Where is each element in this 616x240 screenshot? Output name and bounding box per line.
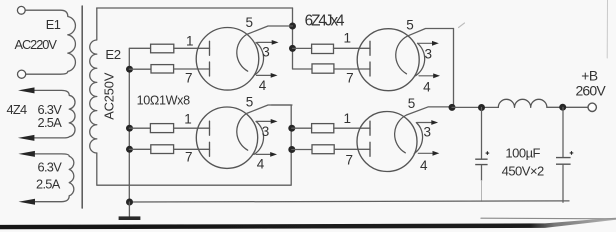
V2 pin3 lead — [257, 120, 274, 122]
terminal primary top — [17, 6, 25, 14]
svg-text:7: 7 — [346, 152, 354, 167]
svg-text:4: 4 — [423, 80, 431, 95]
node upper bus pin5 junction — [289, 23, 296, 30]
node rail junction C2 tap — [559, 104, 566, 111]
wire lower bus row2 stub — [292, 149, 312, 151]
svg-text:E2: E2 — [105, 47, 120, 62]
wire upper bus row1 stub — [293, 47, 312, 49]
V2 cathode — [237, 114, 248, 151]
resistor R5 — [312, 44, 334, 53]
wire R7 to V4 pin1 — [334, 127, 370, 129]
wire left row2 stub — [129, 68, 151, 70]
V2 plate pin7 — [209, 142, 211, 156]
transformer secondary winding E2 (AC250V) — [90, 8, 97, 153]
capacitor C1 plates — [475, 159, 487, 164]
V3 pin3 lead — [418, 42, 435, 44]
wire ground rail — [130, 201, 570, 202]
svg-text:5: 5 — [246, 95, 254, 110]
arrow terminal heater1 bottom — [18, 135, 35, 141]
svg-text:3: 3 — [262, 124, 270, 139]
node rail junction A — [449, 104, 456, 111]
svg-text:AC250V: AC250V — [101, 72, 116, 120]
scan bottom edge bar — [0, 218, 616, 230]
svg-text:6.3V: 6.3V — [38, 160, 63, 175]
arrow terminal heater1 top — [18, 87, 35, 93]
svg-text:260V: 260V — [575, 82, 606, 98]
wire R1 to V1 pin1 — [174, 47, 210, 49]
V1 plate pin7 — [209, 62, 211, 76]
capacitor C2 plates — [556, 158, 571, 165]
wire top rail (secondary top to bus) — [97, 7, 293, 9]
wire left row3 stub — [129, 127, 150, 129]
wire R6 to V3 pin7 — [334, 68, 370, 70]
V3 pin5 lead — [408, 29, 454, 36]
node left bus row3 junction — [126, 125, 133, 132]
tube V3 envelope — [357, 29, 419, 91]
wire output rail — [452, 106, 498, 108]
wire left bus (10ohm feed) — [129, 48, 150, 202]
capacitor C2 bottom lead — [562, 165, 564, 203]
tube V2 envelope — [196, 107, 257, 168]
scan right thin line — [481, 217, 616, 220]
V4 pin5 lead — [407, 107, 452, 115]
wire lower bus row1 stub — [292, 127, 312, 129]
V1 heater arc — [254, 42, 264, 75]
V4 pin4 lead — [418, 152, 435, 154]
V1 pin4 lead — [257, 74, 274, 76]
capacitor C1 top lead — [481, 108, 483, 159]
wire R2 to V1 pin7 — [174, 68, 210, 70]
svg-text:4: 4 — [257, 157, 265, 172]
svg-text:AC220V: AC220V — [15, 37, 58, 52]
node upper bus row1 junction — [289, 45, 296, 52]
svg-text:4Z4: 4Z4 — [7, 102, 28, 117]
svg-text:1: 1 — [344, 111, 352, 126]
V4 heater arc — [414, 123, 422, 154]
transformer heater winding 6.3V 2.5A (lower) — [35, 154, 74, 202]
resistor R4 — [151, 145, 174, 154]
terminal output +B — [588, 103, 596, 111]
V3 heater arc — [416, 43, 425, 76]
svg-text:7: 7 — [185, 150, 193, 165]
wire right bus (V3 pin5 down) — [453, 29, 455, 108]
resistor R8 — [312, 145, 334, 154]
scan faint smudge — [459, 23, 465, 28]
ground symbol — [128, 202, 130, 217]
arrow terminal heater2 top — [18, 151, 35, 157]
svg-text:5: 5 — [408, 96, 416, 111]
V4 plate pin1 — [369, 121, 371, 135]
resistor R7 — [312, 124, 334, 133]
V2 pin4 lead — [256, 153, 273, 155]
svg-text:3: 3 — [262, 45, 270, 60]
transformer T core — [81, 6, 83, 208]
resistor R2 — [151, 65, 174, 73]
scan faint right vertical — [606, 0, 608, 58]
svg-text:3: 3 — [424, 46, 432, 61]
svg-text:450V×2: 450V×2 — [502, 163, 544, 178]
svg-text:5: 5 — [406, 18, 414, 33]
node lower bus row2 junction — [288, 146, 295, 153]
tube V1 envelope — [196, 28, 259, 91]
capacitor C2 top lead — [562, 107, 564, 157]
svg-text:3: 3 — [424, 125, 432, 140]
V3 pin4 lead — [419, 75, 436, 77]
capacitor C1 bottom lead — [481, 165, 483, 180]
svg-text:2.5A: 2.5A — [38, 115, 63, 130]
svg-text:E1: E1 — [46, 17, 61, 32]
transformer heater winding 6.3V 2.5A (upper) — [35, 90, 76, 137]
V1 pin5 lead — [247, 26, 293, 35]
node left bus row2 junction — [126, 66, 133, 73]
V2 plate pin1 — [209, 121, 211, 135]
V3 plate pin7 — [369, 62, 371, 76]
V4 pin3 lead — [417, 122, 434, 124]
V1 cathode — [237, 35, 248, 72]
svg-text:1: 1 — [184, 112, 192, 127]
capacitor C2 plus — [570, 151, 574, 155]
svg-text:4: 4 — [259, 78, 267, 93]
V1 plate pin1 — [209, 41, 211, 55]
terminal primary bottom — [18, 70, 26, 78]
wire R4 to V2 pin7 — [174, 148, 210, 150]
V4 plate pin7 — [369, 142, 371, 156]
svg-text:4: 4 — [420, 158, 428, 173]
V1 pin3 lead — [258, 41, 275, 43]
wire R8 to V4 pin7 — [334, 148, 370, 150]
svg-text:5: 5 — [245, 15, 253, 30]
capacitor C1 plus — [486, 151, 490, 155]
V4 cathode — [395, 115, 407, 153]
svg-text:10Ω1Wx8: 10Ω1Wx8 — [137, 94, 191, 108]
tube V4 envelope — [357, 112, 417, 172]
svg-text:1: 1 — [344, 31, 352, 46]
V2 heater arc — [254, 121, 264, 154]
node ground junction — [126, 199, 133, 206]
wire choke to output — [547, 106, 588, 108]
svg-text:100µF: 100µF — [505, 145, 540, 160]
resistor R1 — [151, 44, 174, 53]
svg-text:7: 7 — [185, 71, 193, 86]
resistor R3 — [150, 124, 173, 133]
wire R5 to V3 pin1 — [334, 47, 371, 49]
transformer primary winding E1 (AC220V) — [25, 10, 75, 74]
svg-text:2.5A: 2.5A — [36, 177, 61, 192]
V3 cathode — [396, 36, 408, 74]
svg-text:7: 7 — [346, 71, 354, 86]
wire upper bus — [293, 8, 312, 69]
svg-text:+B: +B — [581, 68, 598, 83]
wire R3 to V2 pin1 — [174, 127, 210, 129]
wire left row4 stub — [129, 148, 151, 150]
svg-text:6Z4Jx4: 6Z4Jx4 — [305, 12, 345, 29]
V3 plate pin1 — [369, 41, 371, 55]
svg-text:1: 1 — [186, 34, 194, 49]
node left bus row4 junction — [126, 146, 133, 153]
node rail junction C1 tap — [478, 104, 485, 111]
inductor L1 (filter choke) — [498, 99, 547, 107]
wire secondary bottom to lower bus — [97, 105, 291, 185]
V2 pin5 lead — [247, 105, 293, 114]
resistor R6 — [312, 64, 334, 73]
node lower bus row1 junction — [288, 125, 295, 132]
arrow terminal heater2 bottom — [19, 199, 36, 205]
